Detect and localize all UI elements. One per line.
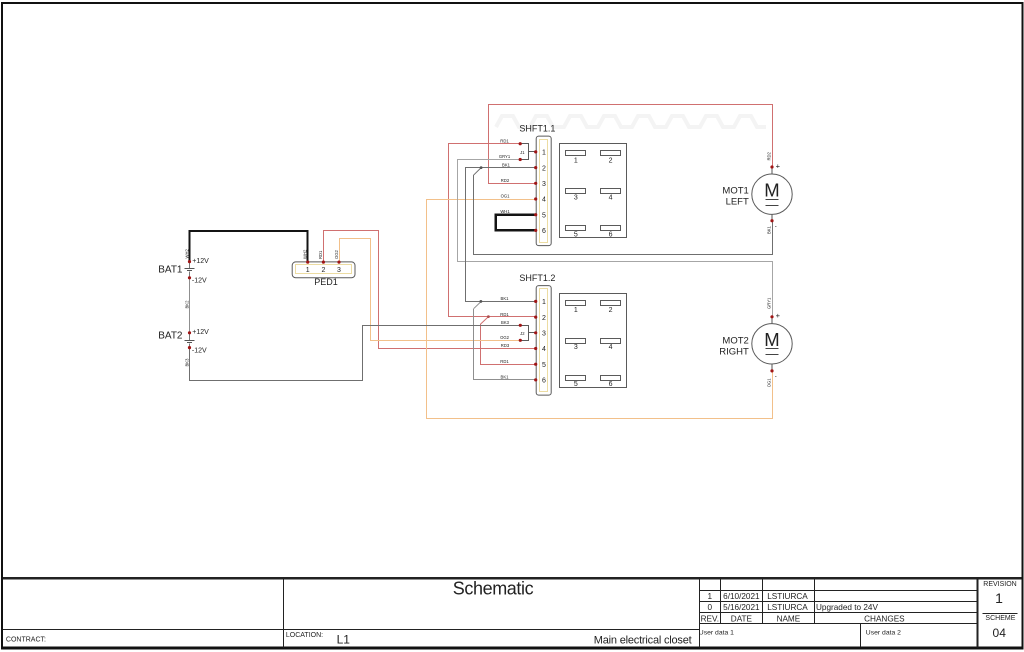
svg-text:SCHEME: SCHEME (985, 615, 1015, 622)
svg-text:6: 6 (542, 378, 546, 385)
svg-text:GRY1: GRY1 (499, 154, 511, 159)
wire BAT1- to BAT2+ (189, 278, 191, 333)
svg-text:2: 2 (321, 267, 325, 274)
wire BK1: SHFT1.1 pin2 to SHFT1.2 pin1 (466, 168, 536, 302)
svg-text:REV.: REV. (701, 614, 719, 623)
wire labels horizontal (499, 138, 511, 379)
svg-text:Upgraded to 24V: Upgraded to 24V (816, 603, 878, 612)
wire diagonal branches (474, 168, 489, 325)
svg-text:+: + (776, 161, 781, 170)
svg-text:+: + (776, 311, 781, 320)
wire BK1 branch to MOT1 - (straight part) (474, 175, 773, 254)
svg-text:RIGHT: RIGHT (719, 346, 749, 357)
bracket J2 (520, 326, 535, 341)
svg-text:LSTIURCA: LSTIURCA (767, 603, 808, 612)
svg-text:1: 1 (995, 590, 1003, 606)
svg-text:1: 1 (708, 592, 713, 601)
svg-text:+12V: +12V (192, 329, 209, 336)
svg-text:5: 5 (574, 232, 578, 239)
svg-text:-12V: -12V (192, 348, 207, 355)
svg-text:DATE: DATE (731, 614, 753, 623)
junction dot BK1 at SHFT1.2 (480, 300, 483, 303)
bracket J1 (520, 144, 535, 160)
battery BAT1 (158, 258, 209, 285)
wire labels rotated (184, 151, 771, 387)
svg-text:4: 4 (542, 346, 546, 353)
svg-text:SHFT1.2: SHFT1.2 (519, 273, 555, 283)
svg-text:OG2: OG2 (334, 249, 339, 259)
svg-text:4: 4 (542, 197, 546, 204)
svg-text:4: 4 (609, 195, 613, 202)
svg-text:SHFT1.1: SHFT1.1 (519, 124, 555, 134)
svg-text:-12V: -12V (192, 278, 207, 285)
svg-text:+12V: +12V (192, 258, 209, 265)
svg-text:1: 1 (542, 150, 546, 157)
wire RD3: PED1 pin2 to SHFT1.2 pin4 (324, 231, 536, 349)
svg-text:6/10/2021: 6/10/2021 (723, 592, 760, 601)
battery BAT2 (158, 329, 209, 355)
svg-text:3: 3 (337, 267, 341, 274)
svg-text:-: - (775, 224, 777, 230)
svg-text:BAT1: BAT1 (158, 264, 183, 275)
svg-text:WH2: WH2 (184, 249, 189, 259)
junction dot RD1 at SHFT1.2 (487, 315, 490, 318)
wire RD1: J1 to SHFT1.2 pin2 (449, 144, 536, 317)
svg-text:LEFT: LEFT (726, 197, 749, 208)
wire GRY1: J1 to MOT2 + (458, 160, 773, 317)
svg-text:BK1: BK1 (502, 162, 511, 167)
svg-text:3: 3 (542, 331, 546, 338)
svg-text:1: 1 (574, 307, 578, 314)
svg-text:CHANGES: CHANGES (864, 614, 905, 623)
svg-text:6: 6 (542, 228, 546, 235)
svg-text:0: 0 (708, 603, 713, 612)
svg-text:BK3: BK3 (184, 358, 189, 367)
wire RD2 top loop: SHFT1.1 pin3 to MOT1 + (489, 105, 773, 184)
svg-text:BK1: BK1 (501, 375, 510, 380)
svg-text:M: M (764, 179, 779, 200)
svg-text:REVISION: REVISION (983, 581, 1016, 588)
svg-text:OG1: OG1 (767, 378, 772, 388)
svg-text:Main electrical closet: Main electrical closet (594, 634, 692, 646)
switch box SW1 (560, 144, 627, 238)
svg-text:J2: J2 (520, 331, 525, 336)
svg-text:LSTIURCA: LSTIURCA (767, 592, 808, 601)
watermark zigzag band (496, 116, 766, 127)
connector SHFT1.1 (519, 124, 556, 246)
wire RD1 branch to SHFT1.2 pin5 (straight part) (481, 324, 536, 364)
svg-text:RD2: RD2 (501, 178, 510, 183)
svg-text:2: 2 (609, 158, 613, 165)
svg-text:2: 2 (542, 315, 546, 322)
svg-text:RD1: RD1 (500, 312, 509, 317)
svg-text:4: 4 (609, 344, 613, 351)
connector PED1 (292, 261, 355, 288)
svg-text:L1: L1 (337, 633, 351, 647)
svg-text:J1: J1 (520, 150, 525, 155)
svg-text:PED1: PED1 (314, 277, 338, 287)
connector SHFT1.2 (519, 273, 556, 395)
svg-text:2: 2 (542, 165, 546, 172)
svg-text:RD1: RD1 (500, 359, 509, 364)
svg-text:6: 6 (609, 381, 613, 388)
svg-text:5/16/2021: 5/16/2021 (723, 603, 760, 612)
wire WH1 thick: SHFT1.1 pin5 to pin6 (496, 215, 536, 231)
svg-text:3: 3 (574, 195, 578, 202)
svg-text:3: 3 (542, 181, 546, 188)
title block (3, 578, 1022, 647)
wire OG2: PED1 pin3 to J2 (340, 239, 521, 341)
svg-text:WH2: WH2 (303, 249, 308, 259)
svg-text:OG1: OG1 (501, 194, 511, 199)
svg-text:BK2: BK2 (184, 300, 189, 309)
svg-text:RD2: RD2 (767, 151, 772, 160)
svg-text:NAME: NAME (777, 614, 801, 623)
svg-text:BK1: BK1 (767, 225, 772, 234)
wire BK1 branch to SHFT1.2 pin6 (straight part) (474, 309, 536, 380)
svg-text:CONTRACT:: CONTRACT: (6, 636, 46, 643)
svg-text:RD1: RD1 (500, 138, 509, 143)
svg-text:5: 5 (574, 381, 578, 388)
svg-text:OG2: OG2 (500, 335, 510, 340)
svg-text:6: 6 (609, 232, 613, 239)
svg-text:RD1: RD1 (318, 250, 323, 259)
junction dot BK1 at SHFT1.1 (480, 166, 483, 169)
motor MOT2 (719, 311, 792, 380)
motor MOT1 (722, 161, 792, 230)
svg-text:3: 3 (574, 344, 578, 351)
svg-text:WH1: WH1 (500, 209, 510, 214)
svg-text:1: 1 (306, 267, 310, 274)
svg-text:-: - (775, 374, 777, 380)
svg-text:User data 1: User data 1 (699, 630, 734, 637)
wire BK3: BAT2- to J2 (190, 326, 521, 381)
svg-text:Schematic: Schematic (453, 579, 534, 599)
switch box SW2 (560, 294, 627, 388)
svg-text:MOT1: MOT1 (722, 186, 748, 197)
svg-text:BK3: BK3 (501, 320, 510, 325)
svg-text:5: 5 (542, 212, 546, 219)
svg-text:User data 2: User data 2 (866, 630, 901, 637)
svg-text:GRY1: GRY1 (767, 297, 772, 309)
svg-text:1: 1 (574, 158, 578, 165)
svg-text:LOCATION:: LOCATION: (286, 632, 323, 639)
svg-text:MOT2: MOT2 (722, 335, 748, 346)
svg-text:2: 2 (609, 307, 613, 314)
svg-text:RD3: RD3 (501, 343, 510, 348)
svg-text:BAT2: BAT2 (158, 330, 183, 341)
wire OG1: SHFT1.1 pin4 to MOT2 - (427, 200, 773, 419)
svg-text:04: 04 (993, 626, 1007, 640)
svg-text:1: 1 (542, 299, 546, 306)
svg-text:5: 5 (542, 362, 546, 369)
svg-text:M: M (764, 329, 779, 350)
wire BK2 thick: BAT1+ to PED1 pin1 (190, 231, 308, 262)
svg-text:BK1: BK1 (501, 296, 510, 301)
